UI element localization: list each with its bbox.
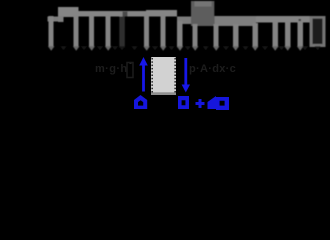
blue down arrow xyxy=(182,58,190,93)
band dark dot xyxy=(299,19,302,21)
band lead-in bar xyxy=(48,17,59,22)
tooth 9 xyxy=(214,24,219,47)
tooth 12 xyxy=(273,21,279,47)
tooth 2 xyxy=(74,15,79,47)
band right segment F xyxy=(256,16,310,23)
hollow end pulse xyxy=(310,16,326,47)
svg-text:m·g·h: m·g·h xyxy=(95,63,128,75)
dark tooth xyxy=(119,17,125,48)
blue d ramp xyxy=(208,96,217,109)
plate rectangle xyxy=(151,57,176,95)
blue plus xyxy=(196,99,205,108)
blue glyph pentagon (left) xyxy=(134,95,147,109)
plate dotted left edge xyxy=(151,58,153,93)
band low step D xyxy=(177,17,191,25)
tooth 5 xyxy=(144,15,149,47)
blue up arrow xyxy=(139,57,148,92)
tooth 14 xyxy=(298,21,304,47)
tooth 13 xyxy=(285,21,291,47)
hollow pulse interior haze xyxy=(313,19,323,44)
peak top highlight xyxy=(195,1,212,7)
band mid segment C xyxy=(146,10,177,17)
plate dotted right edge xyxy=(174,58,176,93)
svg-text:p·A·dx·c: p·A·dx·c xyxy=(189,63,236,75)
blue square ring glyph xyxy=(178,96,189,109)
bright arrowheads xyxy=(48,46,304,51)
tooth 11 xyxy=(253,23,259,47)
plate bottom shade xyxy=(151,92,176,95)
tooth 1 xyxy=(49,16,54,47)
band right thick segment E xyxy=(214,16,256,26)
faint label left bracket xyxy=(127,63,133,78)
band mid segment B xyxy=(79,11,147,17)
dark arrowheads xyxy=(61,46,321,50)
tooth 6 xyxy=(161,15,166,47)
band high segment A xyxy=(58,7,79,17)
tooth 3 xyxy=(89,15,94,47)
band dark notch xyxy=(123,12,128,17)
tooth 4 xyxy=(106,15,111,47)
peak block xyxy=(191,1,214,26)
waveform group xyxy=(48,1,326,51)
blue Q ring xyxy=(216,97,229,110)
faint label left tick xyxy=(130,62,132,64)
tooth 7 xyxy=(177,21,183,47)
band high segment A left stub xyxy=(58,16,64,22)
tooth 10 xyxy=(233,24,239,47)
tooth 8 xyxy=(193,24,198,47)
